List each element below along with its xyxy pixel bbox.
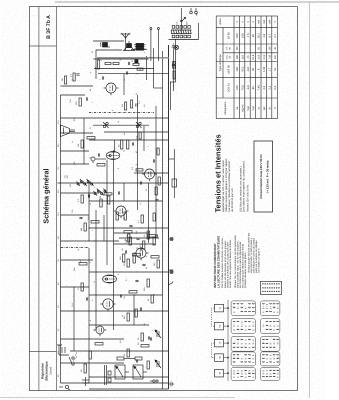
svg-text:25: 25 — [89, 157, 92, 159]
svg-text:168: 168 — [236, 55, 239, 60]
svg-text:R8a: R8a — [73, 267, 76, 271]
svg-text:essent, face aux organes de li: essent, face aux organes de liaison du c… — [228, 239, 231, 288]
svg-text:d4: d4 — [218, 356, 221, 359]
svg-text:12: 12 — [93, 281, 96, 283]
svg-text:6: 6 — [257, 68, 260, 70]
wire speaker lead 2 — [157, 29, 159, 61]
variable capacitor CV1 — [155, 360, 161, 368]
tube U5 UCL82 — [103, 83, 118, 95]
svg-text:Afin de faciliter la lecture d: Afin de faciliter la lecture du schéma, … — [221, 237, 224, 288]
svg-text:25: 25 — [137, 337, 140, 340]
svg-text:220: 220 — [66, 174, 69, 178]
svg-text:les flèches indiquent le sens: les flèches indiquent le sens du déplace… — [239, 241, 242, 288]
svg-text:6: 6 — [272, 357, 275, 358]
svg-text:7: 7 — [248, 306, 251, 307]
svg-text:V: V — [252, 21, 255, 23]
svg-text:100: 100 — [268, 46, 271, 51]
resistor R10c — [122, 254, 124, 262]
svg-text:V: V — [273, 21, 276, 23]
svg-text:Conseil: Conseil — [49, 367, 52, 375]
switch wafer A2 — [260, 301, 280, 316]
resistor R19 — [91, 221, 99, 223]
svg-text:6: 6 — [232, 372, 235, 373]
wire — [114, 243, 155, 245]
capacitor C1 — [136, 359, 137, 362]
switch wafer A1 — [231, 301, 255, 316]
wire — [119, 237, 159, 239]
border frame — [29, 7, 297, 391]
svg-text:9: 9 — [265, 306, 268, 307]
wire contact rows wafer — [262, 325, 264, 327]
variable capacitor gang CV4 — [133, 365, 147, 379]
resistor R40 — [113, 62, 119, 64]
svg-text:5: 5 — [272, 306, 275, 307]
resistor R36 — [73, 73, 75, 81]
node T1 core — [105, 278, 107, 280]
resistor R29 — [130, 100, 132, 108]
svg-text:10: 10 — [137, 342, 140, 345]
svg-text:3k3: 3k3 — [123, 132, 126, 135]
svg-text:1k8: 1k8 — [119, 256, 122, 260]
wire — [147, 183, 149, 243]
wire — [95, 210, 97, 330]
wire — [89, 227, 169, 229]
resistor R19b — [116, 212, 118, 220]
svg-text:7: 7 — [269, 324, 272, 325]
wire — [60, 310, 168, 312]
capacitor C32 — [98, 153, 99, 156]
svg-text:Va: Va — [236, 106, 239, 110]
svg-text:des contacts pour obtenir la p: des contacts pour obtenir la position tr… — [241, 243, 244, 288]
capacitor C20 — [140, 247, 141, 250]
svg-text:2n: 2n — [135, 93, 138, 95]
resistor R23 — [97, 164, 105, 166]
svg-text:Type de lampe: Type de lampe — [219, 54, 222, 72]
node junction — [134, 294, 135, 295]
svg-text:45: 45 — [273, 46, 276, 49]
svg-text:C14: C14 — [71, 304, 74, 307]
wire — [168, 39, 198, 41]
wire — [85, 382, 168, 384]
resistor R2 — [141, 345, 149, 347]
resistor R42 — [137, 68, 143, 70]
svg-text:220: 220 — [185, 21, 188, 25]
svg-text:110: 110 — [175, 21, 178, 25]
svg-text:110: 110 — [63, 174, 66, 178]
svg-text:8,7: 8,7 — [273, 33, 276, 37]
switch mains S1 — [69, 357, 74, 365]
capacitor C57 — [102, 76, 103, 79]
svg-text:8: 8 — [153, 294, 156, 295]
capacitor C19 — [136, 238, 139, 239]
svg-text:c: c — [91, 230, 94, 231]
svg-text:31: 31 — [89, 127, 92, 129]
switch legend box — [260, 281, 281, 294]
capacitor C40 — [153, 159, 154, 162]
wire — [88, 248, 90, 383]
svg-text:1M: 1M — [61, 78, 64, 81]
svg-text:b2: b2 — [218, 324, 221, 327]
node T2 core — [108, 154, 110, 156]
svg-text:7: 7 — [99, 78, 102, 80]
switch wafer C1 — [231, 337, 255, 352]
svg-text:70,2: 70,2 — [241, 66, 244, 72]
svg-text:voir l'additif à la figure 6.: voir l'additif à la figure 6. — [257, 248, 260, 273]
resistor R14 — [147, 231, 149, 239]
svg-text:7: 7 — [269, 342, 272, 343]
node antenna terminal — [152, 379, 158, 383]
svg-text:tateurs ont été dissociés et l: tateurs ont été dissociés et les divers … — [223, 240, 226, 288]
node inspection mark — [73, 352, 76, 363]
capacitor C37 — [155, 199, 158, 200]
svg-text:50: 50 — [257, 46, 260, 49]
svg-text:2: 2 — [240, 306, 243, 307]
wire — [153, 87, 162, 89]
resistor R13b — [127, 234, 129, 242]
wire — [104, 131, 169, 133]
capacitor C22 — [129, 225, 132, 226]
wire — [150, 380, 153, 382]
wire — [123, 183, 125, 201]
svg-text:C8: C8 — [57, 260, 60, 262]
resistor R10e — [142, 241, 144, 249]
resistor R26 — [139, 132, 141, 139]
resistor R21 — [81, 195, 83, 203]
svg-text:50: 50 — [252, 67, 255, 70]
resistor R22c — [158, 177, 160, 185]
resistor R25b — [157, 148, 159, 155]
capacitor C35 — [118, 191, 119, 194]
svg-text:4,7: 4,7 — [137, 219, 140, 223]
IF transformer T2 — [106, 152, 120, 160]
resistor R14c — [153, 237, 155, 245]
svg-text:10: 10 — [119, 59, 122, 61]
speaker LS — [123, 41, 134, 51]
wire — [152, 48, 154, 88]
switch contact chain S8 — [93, 189, 106, 196]
resistor R11 — [133, 255, 135, 263]
svg-text:V: V — [236, 21, 239, 23]
wire — [89, 388, 169, 390]
svg-text:70,5: 70,5 — [241, 85, 244, 91]
capacitor C8 — [86, 297, 87, 300]
svg-text:UCH 81: UCH 81 — [227, 83, 230, 93]
svg-text:5: 5 — [143, 52, 146, 53]
node junction — [169, 81, 170, 82]
node junction — [128, 310, 129, 311]
svg-text:7,45: 7,45 — [268, 54, 271, 59]
svg-text:2,3: 2,3 — [268, 85, 271, 89]
svg-text:C34: C34 — [69, 100, 72, 103]
wire — [143, 126, 145, 151]
node junction — [136, 73, 137, 74]
svg-text:7p: 7p — [77, 249, 80, 251]
svg-text:Désignation: Désignation — [224, 101, 227, 115]
resistor R4 — [81, 283, 83, 291]
svg-text:7,45: 7,45 — [257, 85, 260, 91]
capacitor C70 electrolytic can — [100, 42, 109, 47]
svg-text:R30: R30 — [73, 118, 76, 121]
inductor L4 — [117, 357, 142, 360]
variable capacitor CV2 — [155, 330, 161, 338]
wire — [60, 85, 93, 87]
svg-text:C6: C6 — [57, 306, 60, 308]
capacitor C21 — [156, 234, 157, 237]
capacitor C61 — [128, 62, 129, 65]
svg-text:Ig2: Ig2 — [263, 106, 266, 110]
svg-text:7: 7 — [251, 342, 254, 343]
svg-text:2: 2 — [272, 342, 275, 343]
svg-text:8: 8 — [117, 168, 120, 169]
wire — [145, 56, 147, 80]
svg-text:e5: e5 — [218, 371, 221, 374]
wire — [60, 150, 89, 152]
node junction — [128, 68, 129, 69]
resistor R24 — [120, 140, 122, 149]
wire — [60, 117, 168, 119]
svg-text:a1: a1 — [121, 315, 124, 317]
wire — [168, 282, 173, 285]
svg-text:g: g — [89, 72, 92, 73]
svg-text:UY: UY — [225, 46, 228, 50]
resistor R27 — [81, 140, 83, 148]
wire — [172, 51, 174, 91]
svg-text:2: 2 — [236, 306, 239, 307]
wire — [57, 182, 168, 184]
svg-text:R11: R11 — [57, 236, 60, 239]
resistor R10 — [127, 259, 129, 267]
svg-text:1,2: 1,2 — [139, 202, 142, 205]
svg-text:15: 15 — [89, 203, 92, 205]
svg-text:UBF 80: UBF 80 — [227, 64, 230, 73]
svg-text:3,9: 3,9 — [77, 198, 80, 202]
wire contact rows wafer — [233, 302, 235, 305]
resistor C9 — [79, 263, 87, 265]
svg-text:2,6: 2,6 — [263, 33, 266, 37]
svg-text:0,1: 0,1 — [125, 278, 128, 281]
capacitor C38 — [140, 181, 141, 184]
svg-text:-7,5: -7,5 — [246, 33, 249, 38]
svg-text:26,2: 26,2 — [257, 33, 260, 39]
wire bracket C-D — [211, 343, 214, 358]
svg-text:C29: C29 — [73, 162, 76, 165]
resistor R20b — [99, 199, 101, 207]
resistor R7 — [129, 291, 137, 293]
svg-text:150: 150 — [143, 287, 146, 291]
wire contact rows wafer — [233, 353, 235, 356]
switch contact S13 — [136, 122, 142, 128]
svg-text:9: 9 — [135, 164, 138, 165]
svg-text:100: 100 — [236, 33, 239, 38]
resistor R44 surge — [84, 364, 86, 373]
resistor R2b — [141, 333, 143, 341]
svg-text:2: 2 — [262, 324, 265, 325]
svg-text:0,02: 0,02 — [263, 54, 266, 59]
wire — [136, 95, 138, 210]
tube U2b UCH81 heptode — [133, 248, 148, 260]
switch wafer D1 — [231, 352, 255, 366]
tube U4 UBF80 — [142, 169, 157, 181]
node speaker terminals — [149, 28, 159, 30]
wire — [89, 200, 163, 202]
svg-text:50: 50 — [117, 144, 120, 147]
wire contact rows wafer — [262, 338, 264, 341]
svg-text:Chaque groupe dissocié est rep: Chaque groupe dissocié est repéré par — [247, 233, 250, 273]
wire — [93, 124, 149, 126]
resistor R9 — [151, 295, 153, 303]
wire — [170, 81, 175, 83]
svg-text:100: 100 — [273, 55, 276, 60]
svg-text:7: 7 — [147, 146, 150, 147]
svg-text:5: 5 — [269, 306, 272, 307]
svg-text:d: d — [93, 187, 96, 188]
wire arrow e5 — [223, 372, 228, 374]
svg-text:40: 40 — [89, 89, 92, 91]
svg-text:8: 8 — [232, 324, 235, 325]
svg-text:0,1: 0,1 — [69, 73, 72, 77]
svg-text:1n5: 1n5 — [87, 216, 90, 220]
capacitor C3 — [148, 336, 149, 339]
svg-text:47: 47 — [135, 151, 138, 153]
svg-text:1k: 1k — [123, 79, 126, 81]
wire — [112, 150, 114, 330]
svg-text:c3: c3 — [218, 341, 221, 344]
svg-text:8: 8 — [276, 357, 279, 358]
wire contact rows wafer — [233, 342, 235, 345]
svg-text:12k: 12k — [123, 296, 126, 299]
svg-text:50: 50 — [145, 267, 148, 269]
svg-text:mA: mA — [257, 19, 260, 23]
svg-text:330: 330 — [69, 184, 72, 187]
resistor R12b — [157, 260, 159, 268]
node junction — [175, 39, 176, 40]
IF transformer T1 — [102, 275, 116, 283]
svg-text:100: 100 — [236, 67, 239, 72]
wire — [94, 68, 154, 70]
svg-text:5: 5 — [111, 200, 114, 201]
svg-text:25: 25 — [145, 189, 148, 191]
svg-text:8: 8 — [248, 372, 251, 373]
tube U3 UF89 — [113, 206, 128, 218]
svg-text:1: 1 — [262, 372, 265, 373]
svg-text:1: 1 — [151, 330, 154, 331]
svg-text:9: 9 — [236, 357, 239, 358]
svg-text:dans la position repos , vus: dans la position repos , vus du côté sou… — [236, 240, 239, 288]
svg-text:22k: 22k — [77, 143, 80, 147]
wire — [70, 350, 169, 352]
capacitor C62 electrolytic — [134, 60, 137, 63]
svg-text:-70: -70 — [246, 55, 249, 59]
svg-text:de 20.000 Ω par volt.: de 20.000 Ω par volt. — [231, 188, 234, 212]
svg-text:C4: C4 — [57, 352, 60, 354]
svg-text:17: 17 — [268, 67, 271, 70]
svg-text:5: 5 — [276, 342, 279, 343]
svg-text:porté sur le schéma de câblage: porté sur le schéma de câblage; — [255, 240, 258, 273]
svg-text:6: 6 — [276, 372, 279, 373]
wire — [98, 73, 169, 75]
wire — [89, 376, 169, 378]
node junction — [126, 235, 127, 236]
capacitor C60 — [126, 71, 127, 74]
switch wafer D2 — [260, 352, 280, 366]
mains plug P2 — [189, 8, 197, 16]
resistor R20 — [104, 193, 112, 195]
tube U2 UCH81 — [100, 299, 115, 312]
switch wafer B1 — [231, 319, 255, 334]
svg-text:1n: 1n — [143, 234, 146, 237]
resistor R39 — [105, 62, 111, 64]
node junction — [127, 117, 128, 118]
resistor R15 — [124, 231, 132, 233]
svg-text:Ik: Ik — [268, 107, 271, 110]
wire — [114, 232, 149, 234]
svg-text:B 3F 7b A: B 3F 7b A — [46, 15, 52, 39]
resistor R28 — [124, 102, 126, 110]
resistor R14b — [147, 235, 155, 237]
svg-text:mA: mA — [263, 19, 266, 23]
svg-text:C26: C26 — [71, 210, 74, 213]
lamp LP2 — [169, 237, 172, 240]
svg-text:R7: R7 — [57, 329, 60, 331]
svg-text:V: V — [241, 21, 244, 23]
resistor R38 — [97, 60, 99, 69]
wire — [103, 215, 105, 241]
svg-text:103: 103 — [241, 55, 244, 60]
wire — [93, 40, 124, 42]
wire HT top rail — [59, 95, 61, 383]
wire — [93, 58, 148, 60]
svg-text:1,5: 1,5 — [131, 166, 134, 170]
switch wafer E2 — [260, 368, 280, 381]
node junction — [132, 259, 133, 260]
svg-text:Vg3+5: Vg3+5 — [241, 104, 244, 112]
wire — [83, 118, 85, 164]
node junction — [140, 227, 141, 228]
svg-text:côté indique le numéro du cont: côté indique le numéro du contact — [252, 238, 255, 273]
svg-text:2: 2 — [93, 240, 96, 241]
wire — [89, 271, 169, 273]
wire — [89, 324, 149, 326]
wire — [60, 362, 124, 364]
wire ground bus — [167, 45, 169, 389]
wire — [131, 49, 147, 51]
svg-text:108: 108 — [241, 33, 244, 38]
svg-text:15: 15 — [117, 121, 120, 123]
wire arrow d4 — [223, 357, 228, 359]
svg-text:C14: C14 — [57, 121, 60, 124]
capacitor C65 — [171, 64, 174, 65]
svg-text:0,5: 0,5 — [143, 104, 146, 107]
svg-text:3: 3 — [236, 342, 239, 343]
resistor R22 — [136, 169, 143, 171]
svg-text:82: 82 — [228, 55, 231, 58]
capacitor C55 — [76, 74, 79, 75]
node switch section b2 — [214, 322, 223, 330]
wire — [123, 74, 125, 95]
resistor R46 — [173, 71, 175, 79]
svg-text:(contacts dessinés en traits p: (contacts dessinés en traits pleins). — [244, 251, 247, 288]
resistor R31 — [79, 98, 81, 106]
ground chassis left — [168, 382, 173, 387]
svg-text:UF 85: UF 85 — [227, 32, 230, 40]
svg-text:C12: C12 — [57, 167, 60, 170]
resistor R10d — [132, 254, 140, 256]
capacitor C70 electrolytic — [82, 377, 89, 386]
svg-text:56: 56 — [99, 195, 102, 198]
wire — [133, 295, 135, 325]
resistor R20c — [107, 196, 109, 204]
svg-text:3,2: 3,2 — [263, 85, 266, 89]
